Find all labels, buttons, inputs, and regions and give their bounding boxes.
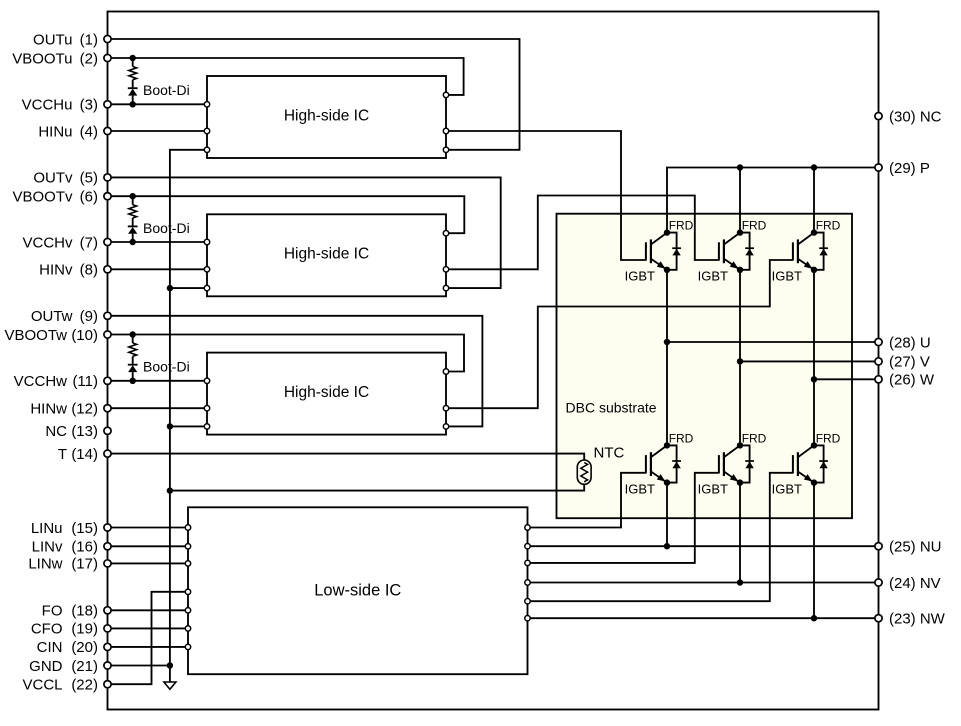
svg-text:(6): (6) xyxy=(80,189,98,206)
svg-text:Boot-Di: Boot-Di xyxy=(143,82,190,98)
label IGBT Q5 (v low) xyxy=(698,481,728,496)
svg-text:FRD: FRD xyxy=(816,219,841,233)
svg-text:High-side IC: High-side IC xyxy=(284,107,369,124)
diode D5 xyxy=(740,445,754,482)
label IGBT Q2 (v high) xyxy=(698,269,728,284)
wire T to NTC xyxy=(108,454,585,460)
svg-text:NTC: NTC xyxy=(594,445,625,462)
wire OUTv to U2 VS xyxy=(108,177,501,288)
label Boot-Di u xyxy=(143,82,190,98)
node Q1 (u high) emitter xyxy=(664,267,670,273)
label FRD D1 xyxy=(669,219,694,233)
svg-text:CFO: CFO xyxy=(31,621,63,638)
wire FO xyxy=(108,609,189,611)
node V tap xyxy=(737,358,743,364)
svg-text:(11): (11) xyxy=(72,373,98,390)
wire u phase column xyxy=(666,270,668,446)
svg-text:FRD: FRD xyxy=(742,431,767,445)
svg-text:(30) NC: (30) NC xyxy=(889,108,942,125)
svg-text:(23) NW: (23) NW xyxy=(889,611,946,628)
node Q5 (v low) emitter xyxy=(737,479,743,485)
wire w phase column xyxy=(813,270,815,446)
wire NTC to GND bus xyxy=(170,484,584,490)
node U tap xyxy=(664,339,670,345)
IC U4 (Low-side IC) xyxy=(188,507,528,674)
wire VCCHu xyxy=(108,103,208,105)
svg-text:(2): (2) xyxy=(80,50,98,67)
node Q3 (w high) collector xyxy=(811,229,817,235)
node Q6 (w low) collector xyxy=(811,442,817,448)
svg-text:(20): (20) xyxy=(71,639,98,656)
label Boot-Di v xyxy=(143,220,190,236)
node P-w junction xyxy=(811,164,817,170)
svg-text:(7): (7) xyxy=(80,234,98,251)
svg-text:(5): (5) xyxy=(80,170,98,187)
svg-text:(22): (22) xyxy=(71,677,98,694)
node Q6 (w low) emitter xyxy=(811,479,817,485)
svg-text:HINw: HINw xyxy=(30,401,67,418)
wire W output xyxy=(814,378,879,380)
svg-text:VCCHw: VCCHw xyxy=(14,373,68,390)
transistor Q2 (v high) xyxy=(719,233,740,270)
svg-text:IGBT: IGBT xyxy=(772,269,802,284)
left pin labels xyxy=(4,31,98,693)
svg-text:GND: GND xyxy=(29,658,63,675)
svg-text:(15): (15) xyxy=(71,520,98,537)
node NV junction xyxy=(737,579,743,585)
diode D4 xyxy=(667,445,681,482)
node Q2 (v high) emitter xyxy=(737,267,743,273)
transistor Q5 (v low) xyxy=(719,445,740,482)
svg-text:LINw: LINw xyxy=(28,556,62,573)
svg-text:(12): (12) xyxy=(71,401,98,418)
label IGBT Q6 (w low) xyxy=(772,481,802,496)
svg-text:Boot-Di: Boot-Di xyxy=(143,220,190,236)
label Boot-Di w xyxy=(143,359,190,375)
wire v collector feed xyxy=(739,168,741,233)
svg-text:HINv: HINv xyxy=(39,262,73,279)
node Q4 (u low) emitter xyxy=(664,479,670,485)
svg-text:High-side IC: High-side IC xyxy=(284,384,369,401)
diode D6 xyxy=(814,445,828,482)
wire NW line xyxy=(528,617,879,619)
diode D1 xyxy=(667,233,681,270)
label FRD D2 xyxy=(742,219,767,233)
svg-text:VBOOTw: VBOOTw xyxy=(4,327,67,344)
wire NV line xyxy=(528,582,879,584)
svg-text:DBC substrate: DBC substrate xyxy=(566,400,657,416)
label FRD D5 xyxy=(742,431,767,445)
DBC substrate region xyxy=(557,214,853,519)
svg-text:IGBT: IGBT xyxy=(698,269,728,284)
IC U3 xyxy=(207,353,446,435)
svg-text:IGBT: IGBT xyxy=(625,269,655,284)
wire VCCL xyxy=(108,592,189,684)
wire LINu xyxy=(108,527,189,529)
ground xyxy=(164,682,176,689)
node Q5 (v low) collector xyxy=(737,442,743,448)
svg-text:HINu: HINu xyxy=(38,123,72,140)
svg-text:Low-side IC: Low-side IC xyxy=(314,581,401,599)
wire v phase column xyxy=(739,270,741,446)
svg-text:(29) P: (29) P xyxy=(889,160,930,177)
transistor Q4 (u low) xyxy=(646,445,667,482)
diode D2 xyxy=(740,233,754,270)
svg-text:FRD: FRD xyxy=(816,431,841,445)
node NU junction xyxy=(664,543,670,549)
node P-v junction xyxy=(737,164,743,170)
node W tap xyxy=(811,376,817,382)
diode Boot-Di v (bootstrap) xyxy=(128,193,138,245)
node Q2 (v high) collector xyxy=(737,229,743,235)
svg-text:(18): (18) xyxy=(71,603,98,620)
svg-text:VCCHv: VCCHv xyxy=(22,234,73,251)
svg-text:Boot-Di: Boot-Di xyxy=(143,359,190,375)
thermistor NTC xyxy=(577,460,591,484)
label FRD D6 xyxy=(816,431,841,445)
svg-text:(10): (10) xyxy=(71,327,98,344)
svg-text:NC: NC xyxy=(45,423,67,440)
wire LINw xyxy=(108,562,189,564)
wire P rail xyxy=(667,168,879,233)
wire OUTu to U1 VS xyxy=(108,39,520,150)
wire HINv xyxy=(108,268,208,270)
svg-text:LINv: LINv xyxy=(32,539,63,556)
wire CFO xyxy=(108,627,189,629)
svg-text:T: T xyxy=(58,446,67,463)
node Q1 (u high) collector xyxy=(664,229,670,235)
svg-text:(3): (3) xyxy=(80,97,98,114)
wire U4 to v low gate xyxy=(528,473,719,563)
node NW junction xyxy=(811,615,817,621)
svg-text:(4): (4) xyxy=(80,123,98,140)
wire U1 HO to u high gate xyxy=(446,131,646,260)
svg-text:FRD: FRD xyxy=(669,431,694,445)
IC U1 xyxy=(207,76,446,158)
label IGBT Q3 (w high) xyxy=(772,269,802,284)
svg-text:(24) NV: (24) NV xyxy=(889,575,941,592)
svg-text:(13): (13) xyxy=(71,423,98,440)
wire U4 to w low gate xyxy=(528,473,793,601)
transistor Q6 (w low) xyxy=(793,445,814,482)
IC pin terminals xyxy=(185,92,530,649)
label FRD D4 xyxy=(669,431,694,445)
wire V output xyxy=(740,360,879,362)
wire GND bus xyxy=(170,150,207,682)
label NTC xyxy=(594,445,625,462)
svg-text:OUTu: OUTu xyxy=(33,31,72,48)
wire VBOOTw to U3 VB xyxy=(108,335,465,372)
svg-text:(26) W: (26) W xyxy=(889,372,935,389)
wire U2 G stub xyxy=(170,287,207,289)
wire VBOOTu to U1 VB xyxy=(108,58,464,95)
svg-text:IGBT: IGBT xyxy=(698,481,728,496)
svg-text:OUTw: OUTw xyxy=(31,308,73,325)
svg-text:(9): (9) xyxy=(80,308,98,325)
label IGBT Q4 (u low) xyxy=(625,481,655,496)
wire NU line xyxy=(528,545,879,547)
svg-text:IGBT: IGBT xyxy=(625,481,655,496)
svg-text:VCCL: VCCL xyxy=(22,677,62,694)
wire U4 to u low gate xyxy=(528,473,646,528)
transistor Q1 (u high) xyxy=(646,233,667,270)
wire w low emitter xyxy=(813,483,815,619)
label IGBT Q1 (u high) xyxy=(625,269,655,284)
node Q3 (w high) emitter xyxy=(811,267,817,273)
label DBC substrate xyxy=(566,400,657,416)
svg-text:(14): (14) xyxy=(71,446,98,463)
wire U3 G stub xyxy=(170,425,207,427)
wire w collector feed xyxy=(813,168,815,233)
wire HINu xyxy=(108,130,208,132)
wire U output xyxy=(667,341,879,343)
wire VBOOTv to U2 VB xyxy=(108,196,465,233)
svg-text:(27) V: (27) V xyxy=(889,354,930,371)
svg-text:VBOOTu: VBOOTu xyxy=(12,50,72,67)
node U3 G junction xyxy=(167,423,173,429)
diode Boot-Di u (bootstrap) xyxy=(128,55,138,108)
svg-text:IGBT: IGBT xyxy=(772,481,802,496)
wire U2 HO to v high gate xyxy=(446,196,719,270)
wire VCCHv xyxy=(108,241,208,243)
svg-text:(17): (17) xyxy=(71,556,98,573)
wire u low emitter xyxy=(666,483,668,547)
node Q4 (u low) collector xyxy=(664,442,670,448)
svg-text:(19): (19) xyxy=(71,621,98,638)
svg-text:(25) NU: (25) NU xyxy=(889,539,942,556)
label FRD D3 xyxy=(816,219,841,233)
svg-text:FO: FO xyxy=(42,603,63,620)
node NTC-GND junction xyxy=(167,487,173,493)
node GND pin junction xyxy=(167,662,173,668)
node U2 G junction xyxy=(167,285,173,291)
svg-text:VBOOTv: VBOOTv xyxy=(12,189,73,206)
svg-text:High-side IC: High-side IC xyxy=(284,246,369,263)
module pin terminals xyxy=(104,35,882,687)
svg-text:VCCHu: VCCHu xyxy=(22,97,73,114)
svg-text:CIN: CIN xyxy=(37,639,63,656)
wire GND pin xyxy=(108,665,170,667)
diode Boot-Di w (bootstrap) xyxy=(128,331,138,384)
svg-text:(21): (21) xyxy=(71,658,98,675)
right pin labels xyxy=(889,108,946,627)
svg-text:(8): (8) xyxy=(80,262,98,279)
wire VCCHw xyxy=(108,380,208,382)
svg-text:OUTv: OUTv xyxy=(33,170,73,187)
wire U3 HO to w high gate xyxy=(446,260,793,408)
svg-text:FRD: FRD xyxy=(669,219,694,233)
svg-text:(16): (16) xyxy=(71,539,98,556)
wire HINw xyxy=(108,407,208,409)
svg-text:LINu: LINu xyxy=(31,520,63,537)
diode D3 xyxy=(814,233,828,270)
svg-text:(28) U: (28) U xyxy=(889,334,931,351)
transistor Q3 (w high) xyxy=(793,233,814,270)
wire CIN xyxy=(108,646,189,648)
module outline xyxy=(108,12,879,710)
svg-text:FRD: FRD xyxy=(742,219,767,233)
IC U2 xyxy=(207,214,446,296)
svg-text:(1): (1) xyxy=(80,31,98,48)
wire v low emitter xyxy=(739,483,741,583)
wire LINv xyxy=(108,545,189,547)
wire OUTw to U3 VS xyxy=(108,316,483,427)
